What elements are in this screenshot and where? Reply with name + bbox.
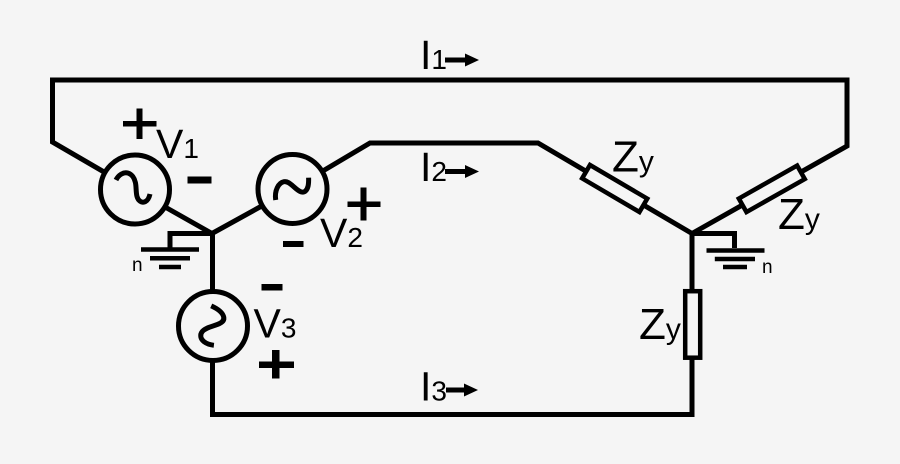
label + (V1 positive) (123, 109, 157, 140)
label + (V3 positive) (259, 350, 294, 379)
label V1 (156, 121, 199, 167)
arrow I3 (446, 384, 478, 397)
label V2 (320, 210, 363, 256)
svg-text:Zy: Zy (778, 190, 820, 239)
label I2 (420, 144, 447, 190)
label V3 (254, 301, 297, 347)
label + (V2 positive) (348, 188, 381, 221)
arrow I2 (445, 165, 479, 178)
wire: V1 to neutral node to V2 (135, 189, 293, 234)
svg-text:V1: V1 (156, 121, 199, 167)
label Zy (phase 2) (778, 190, 820, 239)
svg-text:n: n (132, 255, 143, 276)
ground n (load neutral) (692, 234, 765, 268)
svg-text:I3: I3 (420, 364, 447, 410)
label - (V1 negative) (188, 177, 212, 184)
label - (V3 negative) (262, 284, 283, 291)
svg-text:n: n (762, 257, 773, 278)
voltage source V1 (101, 155, 170, 224)
impedance Zy (phase 2, between top loop and load node) (739, 166, 805, 212)
label n (load neutral) (762, 257, 773, 278)
svg-text:Zy: Zy (612, 133, 654, 182)
svg-text:I2: I2 (420, 144, 447, 190)
impedance Zy (phase 3, vertical above I3 run) (685, 291, 700, 358)
wire: V2 up-right, I2 horizontal run, diagonal down to load node (293, 143, 693, 234)
svg-text:I1: I1 (420, 32, 447, 78)
label n (source neutral) (132, 255, 143, 276)
svg-text:Zy: Zy (639, 300, 681, 349)
label Zy (phase 3) (639, 300, 681, 349)
label I1 (420, 32, 447, 78)
svg-text:V3: V3 (254, 301, 297, 347)
impedance Zy (phase 1, between I2 run and load node) (582, 165, 647, 212)
ground n (source neutral) (141, 234, 212, 268)
label I3 (420, 364, 447, 410)
voltage source V3 (179, 292, 248, 361)
voltage source V2 (258, 155, 327, 224)
wire: V3 down, I3 bottom run, up through Zy to load node (213, 234, 693, 415)
arrow I1 (445, 54, 479, 67)
wire: neutral node down to V3 (210, 234, 215, 327)
svg-text:V2: V2 (320, 210, 363, 256)
label - (V2 negative) (283, 241, 304, 247)
label Zy (phase 1) (612, 133, 654, 182)
wire: I1 top loop from V1 up-left, across top, down right side to load node (53, 80, 848, 234)
